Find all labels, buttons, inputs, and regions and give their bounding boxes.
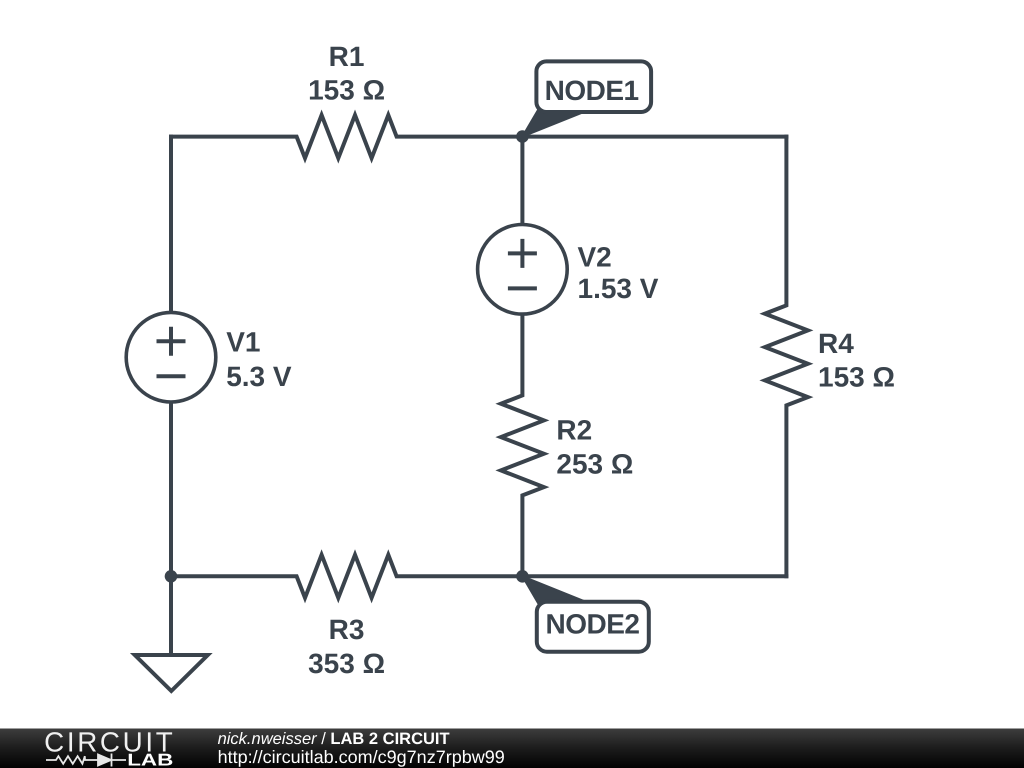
svg-text:353 Ω: 353 Ω [308,648,385,679]
node NODE1 callout [522,61,651,136]
resistor R4 (with right rail wires) [765,137,808,577]
voltage source V2 [478,224,568,314]
svg-text:R1: R1 [329,41,365,72]
svg-text:R2: R2 [556,415,592,446]
node C junction dot (gnd junction) [165,570,178,583]
voltage source V1 [126,312,216,402]
node A junction dot (node1) [516,130,529,143]
svg-text:http://circuitlab.com/c9g7nz7r: http://circuitlab.com/c9g7nz7rpbw99 [218,747,505,767]
wire middle rail upper [520,137,524,225]
svg-text:5.3 V: 5.3 V [226,361,292,392]
resistor R1 (with top wire) [171,115,786,158]
logo resistor-diode doodle [46,754,126,767]
svg-text:V1: V1 [226,327,260,358]
svg-text:R3: R3 [329,614,365,645]
svg-text:LAB: LAB [127,751,173,768]
resistor R2 (with middle wires) [501,314,544,577]
svg-text:NODE2: NODE2 [546,609,640,640]
resistor R3 (with bottom wire) [171,555,786,598]
svg-text:NODE1: NODE1 [545,75,639,106]
svg-text:R4: R4 [818,328,854,359]
svg-text:nick.nweisser / LAB 2 CIRCUIT: nick.nweisser / LAB 2 CIRCUIT [218,730,450,748]
svg-text:153 Ω: 153 Ω [308,75,385,106]
footer bar [0,729,1024,768]
wire left rail lower [169,402,173,655]
ground [135,655,208,691]
wire left rail upper [169,137,173,313]
node B junction dot (node2) [516,570,529,583]
svg-text:253 Ω: 253 Ω [556,448,633,479]
svg-text:V2: V2 [578,242,612,273]
node NODE2 callout [522,576,648,651]
svg-text:153 Ω: 153 Ω [818,361,895,392]
svg-text:1.53 V: 1.53 V [578,273,659,304]
